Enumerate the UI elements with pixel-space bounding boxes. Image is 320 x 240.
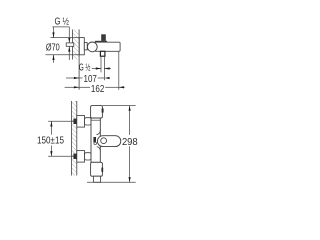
mixer body tube (front view) <box>91 118 100 162</box>
union 2 escutcheon <box>77 151 85 163</box>
svg-text:150±15: 150±15 <box>37 136 64 147</box>
dia70 bottom extension line <box>46 54 80 56</box>
107 left outside arrow <box>66 77 79 79</box>
extension line from body end <box>118 52 120 90</box>
wall right edge line (bottom) <box>76 101 78 176</box>
union 1 escutcheon <box>77 116 85 128</box>
volume handle (bottom) <box>91 162 103 176</box>
G1/2 hose dimension right arrow <box>104 68 111 70</box>
bottom end cap <box>93 176 100 182</box>
extension line from hose fitting right <box>103 56 105 80</box>
leader underline of G1/2 <box>52 26 69 28</box>
union 2 nut <box>85 153 92 160</box>
valve body circle <box>87 42 97 52</box>
wall (bottom front view) hatched section <box>72 101 77 176</box>
extension line from hose fitting left <box>100 56 102 72</box>
union nut <box>84 43 87 50</box>
dia70 down arrow (outside, above) <box>53 27 55 38</box>
dimension 107 line <box>79 77 82 79</box>
298 bottom extension line <box>87 181 136 183</box>
safestop button bottom <box>101 168 103 172</box>
wall left edge line (bottom) <box>71 101 73 176</box>
safestop button top <box>102 108 104 112</box>
svg-text:162: 162 <box>91 84 105 95</box>
298 dimension line lower with down arrow <box>129 146 131 182</box>
spout (stadium outline) <box>97 136 120 147</box>
wall (top side view) hatched section <box>73 30 79 60</box>
safestop bar <box>93 137 96 142</box>
162 left outside arrow <box>65 86 80 88</box>
handle underline <box>91 119 100 121</box>
escutcheon (side view, dia 70) <box>79 38 84 55</box>
150 dimension extension line lower <box>48 155 73 157</box>
wall left edge line <box>72 30 74 60</box>
temperature handle (top) <box>91 106 103 118</box>
162 right outside arrow <box>119 86 125 88</box>
wall right edge line + extension down to dimension rows <box>78 30 80 90</box>
hose outlet fitting below body <box>100 51 105 56</box>
298 top extension line <box>102 105 135 107</box>
dimension 162 line <box>79 86 90 88</box>
svg-text:G ½: G ½ <box>54 17 69 28</box>
spout upper joint curve <box>97 130 101 134</box>
mixer body tube (side view) <box>95 42 120 51</box>
298 dimension line upper with up arrow <box>129 106 131 135</box>
G1/2 up arrow below pipe stub <box>68 46 70 60</box>
spout lower joint curve <box>97 147 101 151</box>
150 dimension line lower segment with down arrow <box>50 146 52 157</box>
G1/2 dimension line with down arrow to pipe stub <box>68 27 70 43</box>
union 1 in-wall connector <box>73 119 76 124</box>
svg-text:G ½: G ½ <box>79 63 91 74</box>
svg-text:Ø70: Ø70 <box>46 43 60 54</box>
150 dimension line upper segment with up arrow <box>50 121 52 135</box>
union 2 in-wall connector <box>73 154 76 159</box>
dia70 top extension line <box>51 37 80 39</box>
dia70 up arrow (outside, below) <box>53 55 55 63</box>
diverter knob on top of body <box>101 34 106 41</box>
pipe stub G1/2 behind wall <box>66 43 74 46</box>
knob base <box>95 41 107 44</box>
107 right outside arrow <box>104 77 109 79</box>
spout aerator circle <box>101 138 107 144</box>
union 1 nut <box>85 118 92 125</box>
150 dimension extension line upper <box>48 120 73 122</box>
G1/2 hose dimension left arrow <box>92 68 101 70</box>
svg-text:298: 298 <box>122 137 138 148</box>
